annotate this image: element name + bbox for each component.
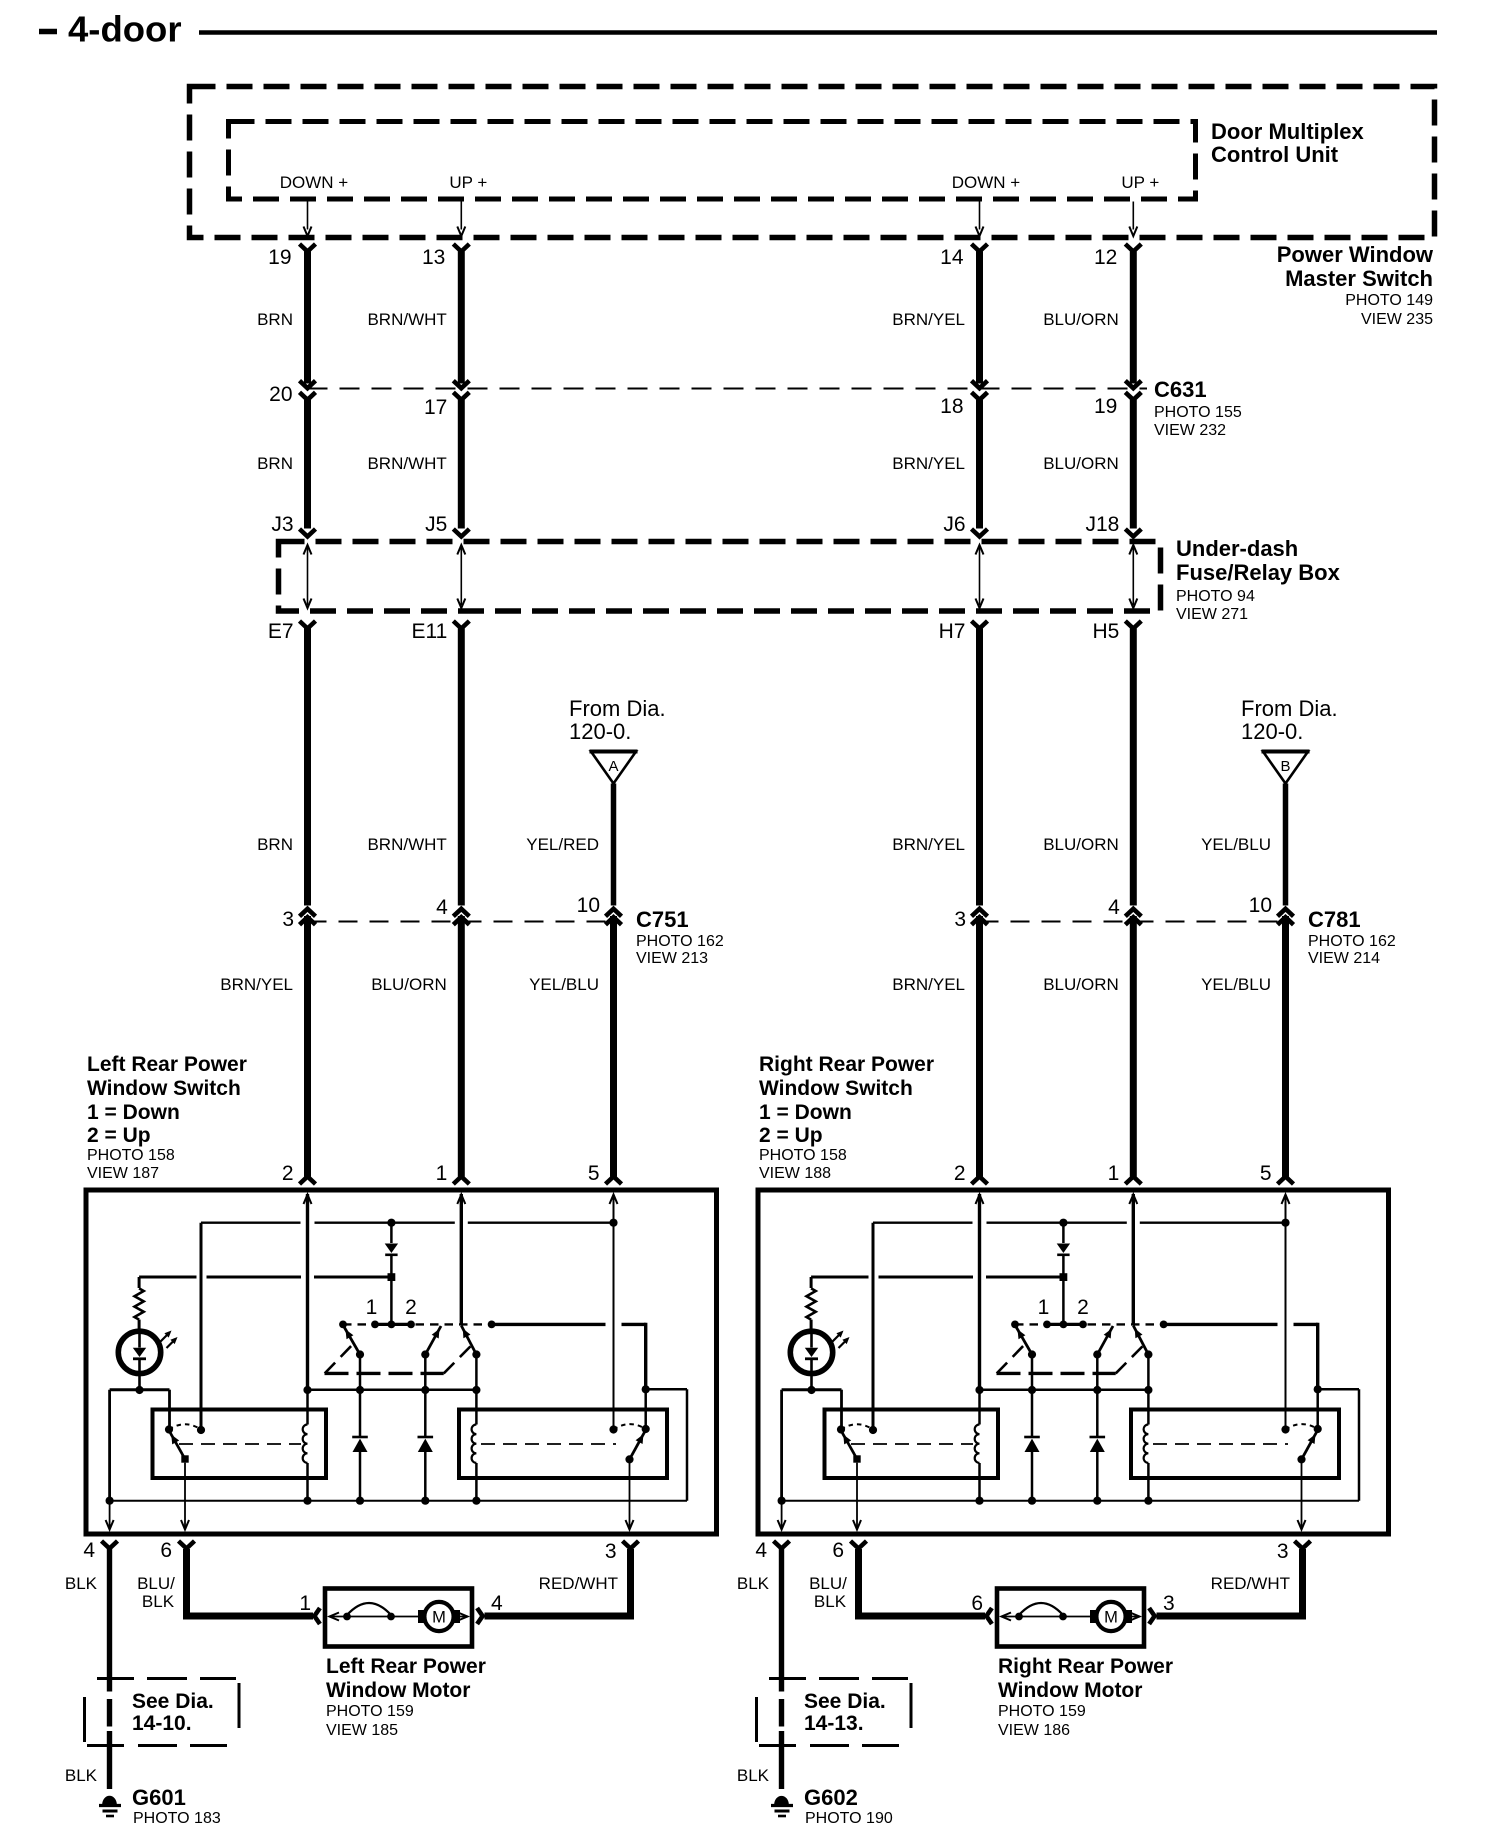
svg-text:Left Rear Power: Left Rear Power (87, 1053, 247, 1076)
internal bus y1390 (L) (308, 1388, 477, 1391)
wire BLU/ORN fuse box exit chevron (1125, 621, 1141, 629)
wire diode to rocker bar (L) (390, 1281, 393, 1324)
svg-text:14-10.: 14-10. (132, 1712, 192, 1735)
svg-text:6: 6 (971, 1592, 983, 1615)
ground symbol G602 (775, 1796, 789, 1804)
rocker linkage dashed parallelogram (R) (997, 1372, 1116, 1375)
under-dash fuse/relay box dashed box (279, 542, 1161, 612)
motor input chevron right (R) (1149, 1608, 1155, 1624)
wire to relay1 first contact (R) (840, 1390, 843, 1430)
svg-text:14: 14 (940, 246, 964, 269)
internal top bus y1223 (R) (873, 1222, 973, 1224)
svg-text:VIEW 232: VIEW 232 (1154, 422, 1226, 439)
junction square diode/line2 (R) (1060, 1273, 1068, 1281)
svg-text:1: 1 (436, 1162, 448, 1185)
wire BLU/ORN lower switch box entry chevron (1125, 1177, 1141, 1185)
pin 4 chevron (L) (102, 1541, 118, 1549)
relay K1 dashed throw arc (R) (841, 1424, 873, 1429)
wire resistor to LED (L) (138, 1320, 141, 1332)
svg-text:VIEW 213: VIEW 213 (636, 950, 708, 967)
svg-text:DOWN +: DOWN + (952, 173, 1021, 192)
svg-text:120-0.: 120-0. (569, 719, 631, 744)
svg-text:VIEW 271: VIEW 271 (1176, 606, 1248, 623)
svg-text:3: 3 (1277, 1540, 1289, 1563)
svg-text:4: 4 (83, 1539, 95, 1562)
wire pin5 internal vertical (L) (613, 1194, 615, 1430)
svg-text:PHOTO 183: PHOTO 183 (133, 1810, 221, 1827)
wire BLK dashed inside see-dia box (L) (107, 1699, 112, 1727)
Left rear power window motor box (325, 1589, 472, 1647)
svg-text:A: A (608, 758, 618, 775)
svg-text:PHOTO 149: PHOTO 149 (1345, 292, 1433, 309)
internal bus y1277 (R) (811, 1276, 868, 1279)
svg-text:Door Multiplex: Door Multiplex (1211, 119, 1365, 144)
svg-text:2: 2 (282, 1162, 294, 1185)
svg-text:VIEW 185: VIEW 185 (326, 1722, 398, 1739)
svg-text:1: 1 (366, 1296, 378, 1319)
svg-text:3: 3 (282, 908, 294, 931)
svg-text:19: 19 (1094, 395, 1117, 418)
svg-text:VIEW 187: VIEW 187 (87, 1165, 159, 1182)
svg-text:J6: J6 (943, 513, 965, 536)
svg-text:5: 5 (588, 1162, 600, 1185)
svg-text:VIEW 186: VIEW 186 (998, 1722, 1070, 1739)
wire BLU/ORN master-switch output arrow (1132, 202, 1134, 230)
svg-text:Window Switch: Window Switch (759, 1077, 913, 1100)
wire to relay1 first contact (L) (168, 1390, 171, 1430)
junction top-bus/diode (L) (387, 1219, 395, 1227)
motor commutator arc (L) (343, 1613, 351, 1621)
svg-text:PHOTO 159: PHOTO 159 (998, 1703, 1086, 1720)
svg-text:YEL/BLU: YEL/BLU (529, 975, 599, 994)
wire BLU/ORN master-switch pin chevron (1125, 244, 1141, 252)
svg-text:J5: J5 (425, 513, 447, 536)
svg-text:BRN/WHT: BRN/WHT (367, 454, 446, 473)
junction pin5/top-bus (R) (1281, 1219, 1289, 1227)
svg-text:UP +: UP + (1121, 173, 1159, 192)
pin 3 chevron (R) (1295, 1541, 1311, 1549)
svg-text:Window Motor: Window Motor (998, 1679, 1142, 1702)
wire BRN/YEL switch box entry chevron (300, 1177, 316, 1185)
svg-text:BLK: BLK (737, 1574, 770, 1593)
wire BRN fuse box internal link arrow (307, 547, 309, 605)
relay K2 box (R) (1131, 1410, 1339, 1479)
wire x645 to relay2 contact (L) (644, 1389, 647, 1429)
motor input chevron left (L) (314, 1608, 320, 1624)
wire BRN/YEL segment fuse box to C751/C781 (976, 629, 983, 906)
svg-text:VIEW 235: VIEW 235 (1361, 311, 1433, 328)
wire left branch vertical x201 (L) (200, 1223, 203, 1430)
svg-text:BLK: BLK (814, 1592, 847, 1611)
svg-text:YEL/BLU: YEL/BLU (1201, 835, 1271, 854)
relay K1 box (R) (825, 1410, 999, 1479)
motor internal wire and arrows (R) (1001, 1616, 1095, 1618)
junction top-bus/diode (R) (1059, 1219, 1067, 1227)
wire rocker bar to relay2 contact (L) (492, 1323, 606, 1326)
svg-text:UP +: UP + (449, 173, 487, 192)
svg-text:BLU/ORN: BLU/ORN (371, 975, 447, 994)
internal bottom bus y1500 (L) (110, 1500, 687, 1502)
svg-text:4-door: 4-door (68, 9, 182, 50)
wire BRN/YEL fuse box exit chevron (972, 621, 988, 629)
svg-text:Window Switch: Window Switch (87, 1077, 241, 1100)
rocker right contact arm (R) (1133, 1326, 1148, 1355)
diode D2 (L) (359, 1355, 362, 1437)
diode D1 (R) (1062, 1223, 1065, 1243)
svg-text:H7: H7 (939, 620, 966, 643)
wire BRN C631 connector chevrons (300, 381, 316, 389)
relay K1 switch arm (R) (841, 1431, 857, 1460)
wire BRN fuse box exit chevron (300, 621, 316, 629)
svg-text:See Dia.: See Dia. (804, 1690, 886, 1713)
wire BRN/WHT master-switch output arrow (460, 202, 462, 230)
rocker right contact arm (L) (461, 1326, 476, 1355)
header tick mark (39, 29, 57, 35)
wire pin1 internal vertical (R) (1132, 1194, 1135, 1324)
wire BLU/BLK pin6 to motor (L) (183, 1549, 190, 1616)
rocker linkage dashed parallelogram (L) (325, 1372, 444, 1375)
relay K2 contact dots (R) (1281, 1425, 1289, 1433)
resistor R1 (R) (810, 1277, 813, 1288)
connector C781 dashed line (980, 921, 1286, 923)
svg-text:BLK: BLK (142, 1592, 175, 1611)
pin 2 internal arrow (R) (976, 1195, 984, 1205)
svg-text:Control Unit: Control Unit (1211, 142, 1339, 167)
wire BRN/WHT segment master switch to C631 (458, 252, 465, 384)
svg-text:M: M (432, 1609, 446, 1627)
wire BRN/YEL lower segment connector to switch box (976, 916, 983, 1177)
svg-text:BLU/: BLU/ (809, 1574, 847, 1593)
svg-text:C781: C781 (1308, 907, 1361, 932)
svg-text:Fuse/Relay Box: Fuse/Relay Box (1176, 560, 1341, 585)
svg-text:BRN/YEL: BRN/YEL (220, 975, 293, 994)
motor input chevron right (L) (477, 1608, 483, 1624)
svg-text:13: 13 (422, 246, 445, 269)
svg-text:3: 3 (954, 908, 966, 931)
Right rear power window motor box (997, 1589, 1144, 1647)
wire RED/WHT pin3 to motor (L) (627, 1549, 634, 1616)
wire BRN/WHT segment C631 to fuse box (458, 400, 465, 529)
svg-text:2 = Up: 2 = Up (759, 1124, 823, 1147)
wire resistor to LED (R) (810, 1320, 813, 1332)
wire BRN/YEL segment master switch to C631 (976, 252, 983, 384)
wire BRN/WHT segment fuse box to C751/C781 (458, 629, 465, 906)
svg-text:1: 1 (1038, 1296, 1050, 1319)
motor input chevron left (R) (986, 1608, 992, 1624)
pin 6 internal arrow (R) (856, 1463, 858, 1527)
internal top bus y1223 (L) (201, 1222, 301, 1224)
wire pin2 internal vertical (L) (306, 1194, 309, 1390)
rocker middle contact arm (R) (1097, 1326, 1113, 1355)
pin 5 internal arrow (R) (1282, 1195, 1290, 1205)
svg-text:1 = Down: 1 = Down (87, 1101, 180, 1124)
svg-text:10: 10 (1249, 894, 1272, 917)
svg-text:G602: G602 (804, 1785, 858, 1810)
wire BLU/ORN C631 connector chevrons (1125, 381, 1141, 389)
relay K2 switch arm (R) (1302, 1430, 1318, 1459)
internal bottom bus y1500 (R) (782, 1500, 1359, 1502)
svg-text:DOWN +: DOWN + (280, 173, 349, 192)
svg-text:BLK: BLK (65, 1574, 98, 1593)
wire LED bottom T (L) (110, 1388, 170, 1391)
svg-text:BRN/YEL: BRN/YEL (892, 835, 965, 854)
wire BRN/YEL segment connector to switch box (304, 916, 311, 1177)
svg-text:Under-dash: Under-dash (1176, 536, 1298, 561)
wire LED bottom T (R) (782, 1388, 842, 1391)
LED indicator (R) (790, 1331, 832, 1373)
wire BRN/YEL fuse box entry chevron (972, 529, 988, 537)
off-page connector triangle B (1263, 752, 1308, 784)
svg-text:2: 2 (405, 1296, 417, 1319)
pin 5 internal arrow (L) (610, 1195, 618, 1205)
svg-text:2 = Up: 2 = Up (87, 1124, 151, 1147)
wire YEL/BLU (right) switch box entry chevron (1278, 1177, 1294, 1185)
rocker switch bar (L) (343, 1323, 492, 1325)
connector C751 dashed line (308, 921, 614, 923)
wire BRN/YEL lower C751/C781 connector chevrons (972, 909, 988, 917)
svg-text:VIEW 214: VIEW 214 (1308, 950, 1380, 967)
relay K1 box (L) (153, 1410, 327, 1479)
relay K2 dashed coil-contact link (R) (1153, 1443, 1288, 1445)
svg-text:BLU/ORN: BLU/ORN (1043, 975, 1119, 994)
relay K2 contact dots (L) (609, 1425, 617, 1433)
wire left branch vertical x201 (R) (872, 1223, 875, 1430)
svg-text:PHOTO 162: PHOTO 162 (1308, 933, 1396, 950)
svg-text:Power Window: Power Window (1277, 242, 1434, 267)
wire pin5 internal vertical (R) (1285, 1194, 1287, 1430)
svg-text:3: 3 (605, 1540, 617, 1563)
LED light arrows (R) (833, 1333, 842, 1342)
svg-text:YEL/BLU: YEL/BLU (1201, 975, 1271, 994)
pin 1 internal arrow (L) (457, 1195, 465, 1205)
wire BLU/ORN segment master switch to C631 (1130, 252, 1137, 384)
svg-text:C631: C631 (1154, 377, 1207, 402)
svg-text:See Dia.: See Dia. (132, 1690, 214, 1713)
svg-text:20: 20 (269, 383, 292, 406)
wire BLU/ORN fuse box internal link arrow (1132, 547, 1134, 605)
wire BRN segment master switch to C631 (304, 252, 311, 384)
svg-text:G601: G601 (132, 1785, 186, 1810)
rocker left contact arm (L) (343, 1325, 360, 1355)
svg-text:H5: H5 (1092, 620, 1119, 643)
wire BRN/WHT master-switch pin chevron (453, 244, 469, 252)
pin 2 internal arrow (L) (304, 1195, 312, 1205)
junction x645 (R) (1314, 1385, 1322, 1393)
svg-text:Right Rear Power: Right Rear Power (998, 1655, 1173, 1678)
relay K2 coil (L) (472, 1425, 477, 1463)
door multiplex control unit outer dashed box (190, 87, 1435, 238)
svg-text:Master Switch: Master Switch (1285, 266, 1433, 291)
svg-text:4: 4 (1108, 896, 1120, 919)
svg-text:Right Rear Power: Right Rear Power (759, 1053, 934, 1076)
wire BRN/YEL fuse box internal link arrow (979, 547, 981, 605)
wire BLU/BLK pin6 to motor (R) (855, 1549, 862, 1616)
junction square diode/line2 (L) (388, 1273, 396, 1281)
wire BLU/ORN fuse box entry chevron (1125, 529, 1141, 537)
wire BRN fuse box entry chevron (300, 529, 316, 537)
svg-text:BLK: BLK (65, 1766, 98, 1785)
svg-text:12: 12 (1094, 246, 1117, 269)
wire BRN/WHT fuse box entry chevron (453, 529, 469, 537)
svg-text:BLU/: BLU/ (137, 1574, 175, 1593)
pin 3 internal arrow (R) (1301, 1459, 1303, 1527)
wire BRN/WHT fuse box internal link arrow (460, 547, 462, 605)
wire BRN/YEL segment C631 to fuse box (976, 400, 983, 529)
relay K2 dashed throw arc (R) (1286, 1424, 1318, 1429)
pin 6 chevron (L) (179, 1541, 195, 1549)
svg-text:17: 17 (424, 396, 447, 419)
svg-text:BRN/WHT: BRN/WHT (367, 310, 446, 329)
svg-text:From Dia.: From Dia. (1241, 696, 1338, 721)
svg-text:From Dia.: From Dia. (569, 696, 666, 721)
svg-text:4: 4 (436, 896, 448, 919)
pin 6 internal arrow (L) (184, 1463, 186, 1527)
rocker switch bar (R) (1015, 1323, 1164, 1325)
pin 6 chevron (R) (851, 1541, 867, 1549)
svg-text:BRN/YEL: BRN/YEL (892, 454, 965, 473)
resistor R1 (L) (138, 1277, 141, 1288)
svg-text:10: 10 (577, 894, 600, 917)
pin 3 chevron (L) (623, 1541, 639, 1549)
svg-text:PHOTO 94: PHOTO 94 (1176, 588, 1255, 605)
svg-text:PHOTO 190: PHOTO 190 (805, 1810, 893, 1827)
wire x645 to relay2 contact (R) (1316, 1389, 1319, 1429)
svg-text:4: 4 (755, 1539, 767, 1562)
svg-text:1: 1 (1108, 1162, 1120, 1185)
svg-text:18: 18 (940, 395, 963, 418)
svg-text:B: B (1280, 758, 1290, 775)
relay K1 contact dots (R) (837, 1425, 845, 1433)
wire BLK pin4 to see-dia box (R) (779, 1549, 784, 1692)
svg-text:4: 4 (491, 1592, 503, 1615)
svg-text:C751: C751 (636, 907, 689, 932)
svg-text:E7: E7 (268, 620, 294, 643)
wire corner to right drop (L) (646, 1388, 687, 1391)
svg-text:BLU/ORN: BLU/ORN (1043, 835, 1119, 854)
pin 1 internal arrow (R) (1129, 1195, 1137, 1205)
wire BLK pin4 to see-dia box (L) (107, 1549, 112, 1692)
junction x645 (L) (642, 1385, 650, 1393)
svg-text:2: 2 (1077, 1296, 1089, 1319)
svg-text:PHOTO 155: PHOTO 155 (1154, 404, 1242, 421)
diode D1 (L) (390, 1223, 393, 1243)
motor internal wire and arrows (L) (329, 1616, 423, 1618)
svg-text:2: 2 (954, 1162, 966, 1185)
wire BRN/YEL master-switch pin chevron (972, 244, 988, 252)
wire rocker-right to relay2 coil (L) (475, 1355, 478, 1425)
relay K2 coil (R) (1144, 1425, 1149, 1463)
wire BRN/YEL lower switch box entry chevron (972, 1177, 988, 1185)
svg-text:BRN/YEL: BRN/YEL (892, 310, 965, 329)
svg-text:PHOTO 158: PHOTO 158 (87, 1147, 175, 1164)
wire BLK dashed inside see-dia box (R) (779, 1699, 784, 1727)
header rule (199, 30, 1437, 35)
relay K1 coil (on pin2 line) (R) (978, 1390, 981, 1425)
svg-text:BRN: BRN (257, 454, 293, 473)
wire BRN/YEL master-switch output arrow (979, 202, 981, 230)
svg-text:BLU/ORN: BLU/ORN (1043, 310, 1119, 329)
wire YEL/BLU (right) C751/C781 connector chevrons (1278, 909, 1294, 917)
motor brushes (L) (418, 1610, 425, 1623)
wire BLU/ORN (left) segment connector to switch box (458, 916, 465, 1177)
svg-text:E11: E11 (411, 620, 447, 643)
wire YEL from triangle B to connector (1283, 784, 1289, 906)
svg-text:BRN: BRN (257, 310, 293, 329)
relay K1 dashed coil-contact link (L) (179, 1443, 301, 1445)
relay K2 switch arm (L) (630, 1430, 646, 1459)
wire BLU/ORN segment fuse box to C751/C781 (1130, 629, 1137, 906)
relay K1 dashed throw arc (L) (169, 1424, 201, 1429)
wire YEL/BLU (right) segment connector to switch box (1282, 916, 1289, 1177)
wire BRN master-switch pin chevron (300, 244, 316, 252)
wire BLU/ORN (left) C751/C781 connector chevrons (453, 909, 469, 917)
relay K1 dashed coil-contact link (R) (851, 1443, 973, 1445)
svg-text:5: 5 (1260, 1162, 1272, 1185)
junction LED bottom (L) (135, 1386, 143, 1394)
svg-text:Left Rear Power: Left Rear Power (326, 1655, 486, 1678)
wire rocker bar to relay2 contact (R) (1164, 1323, 1278, 1326)
wire BRN segment fuse box to C751/C781 (304, 629, 311, 906)
svg-text:RED/WHT: RED/WHT (539, 1574, 618, 1593)
power window master switch inner dashed box (229, 122, 1196, 200)
wire pin2 internal vertical (R) (978, 1194, 981, 1390)
wire YEL/BLU (left) C751/C781 connector chevrons (606, 909, 622, 917)
wire BLK see-dia box to ground (L) (107, 1731, 112, 1789)
diode D3 (R) (1096, 1355, 1099, 1437)
relay K2 dashed throw arc (L) (614, 1424, 646, 1429)
svg-text:14-13.: 14-13. (804, 1712, 864, 1735)
svg-text:VIEW 188: VIEW 188 (759, 1165, 831, 1182)
pin 4 chevron (R) (774, 1541, 790, 1549)
wire diode to rocker bar (R) (1062, 1281, 1065, 1324)
relay K2 box (L) (459, 1410, 667, 1479)
wire BLU/ORN (left) switch box entry chevron (453, 1177, 469, 1185)
svg-text:PHOTO 162: PHOTO 162 (636, 933, 724, 950)
svg-text:RED/WHT: RED/WHT (1211, 1574, 1290, 1593)
svg-text:19: 19 (268, 246, 291, 269)
svg-text:1: 1 (299, 1592, 311, 1615)
junction pin5/top-bus (L) (609, 1219, 617, 1227)
wire RED/WHT pin3 to motor (R) (1299, 1549, 1306, 1616)
svg-text:6: 6 (832, 1539, 844, 1562)
wire BLK see-dia box to ground (R) (779, 1731, 784, 1789)
Left rear power window switch box (86, 1190, 717, 1534)
svg-text:J18: J18 (1085, 513, 1119, 536)
svg-text:3: 3 (1163, 1592, 1175, 1615)
wire to pin4 vertical (R) (780, 1390, 783, 1501)
Right rear power window switch box (758, 1190, 1389, 1534)
wire YEL/BLU (left) segment connector to switch box (610, 916, 617, 1177)
wire YEL/BLU (left) switch box entry chevron (606, 1177, 622, 1185)
svg-text:YEL/RED: YEL/RED (526, 835, 599, 854)
wire pin1 internal vertical (L) (460, 1194, 463, 1324)
wire BRN master-switch output arrow (307, 202, 309, 230)
svg-text:PHOTO 159: PHOTO 159 (326, 1703, 414, 1720)
diode D2 (R) (1031, 1355, 1034, 1437)
svg-text:Window Motor: Window Motor (326, 1679, 470, 1702)
see dia dashed box (L) (97, 1677, 134, 1680)
svg-text:BLK: BLK (737, 1766, 770, 1785)
LED light arrows (L) (161, 1333, 170, 1342)
wire BRN/YEL C751/C781 connector chevrons (300, 909, 316, 917)
svg-text:1 = Down: 1 = Down (759, 1101, 852, 1124)
rocker left contact arm (R) (1015, 1325, 1032, 1355)
motor brushes (R) (1090, 1610, 1097, 1623)
pin 3 internal arrow (L) (629, 1459, 631, 1527)
motor commutator arc (R) (1015, 1613, 1023, 1621)
motor M circle (L) (424, 1602, 453, 1631)
svg-text:BRN/YEL: BRN/YEL (892, 975, 965, 994)
